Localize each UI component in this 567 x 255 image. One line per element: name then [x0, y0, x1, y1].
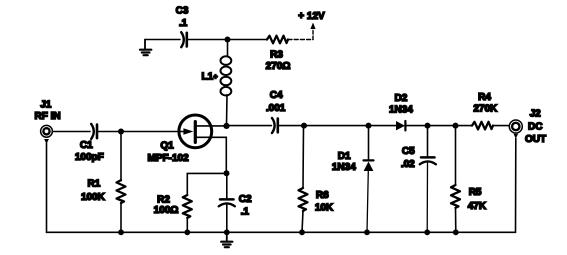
wire (J1 sleeve down to ground rail) — [46, 143, 48, 232]
svg-text:.02: .02 — [401, 159, 415, 170]
svg-text:J1: J1 — [40, 99, 52, 110]
jack J2 — [509, 108, 546, 145]
transistor Q1 (JFET MPF-102) — [148, 115, 227, 173]
node J (R2 bottom) — [184, 229, 190, 235]
capacitor C2 — [219, 173, 252, 232]
capacitor C4 — [266, 90, 286, 133]
wire (R6 node to D1 node) — [304, 125, 369, 127]
svg-text:R2: R2 — [157, 194, 170, 205]
+12V supply arrow — [298, 11, 325, 40]
svg-text:RF IN: RF IN — [35, 111, 61, 122]
node E (R6 top junction) — [301, 123, 307, 129]
node L (R6 bottom) — [299, 229, 305, 235]
wire (R3 to +12V corner, dashed scan look) — [288, 39, 313, 41]
svg-text:OUT: OUT — [525, 134, 546, 145]
svg-text:R5: R5 — [469, 187, 482, 198]
node O (R5 bottom) — [453, 229, 459, 235]
svg-text:R1: R1 — [88, 178, 101, 189]
svg-text:100K: 100K — [81, 192, 106, 203]
wire (R5 node to R4) — [456, 125, 473, 127]
svg-text:C2: C2 — [239, 194, 252, 205]
resistor R1 — [81, 132, 126, 233]
svg-text:L1: L1 — [202, 72, 214, 83]
svg-text:+: + — [213, 72, 218, 81]
svg-text:.001: .001 — [266, 103, 286, 114]
resistor R5 — [451, 126, 487, 233]
svg-text:1N34: 1N34 — [332, 162, 356, 173]
ground (below C2 on rail) — [221, 232, 232, 247]
svg-text:R3: R3 — [270, 50, 283, 61]
wire (bottom ground rail) — [47, 231, 516, 233]
node M (D1 bottom) — [364, 229, 370, 235]
node D (source junction) — [224, 170, 230, 176]
wire (D1 node to D2) — [369, 125, 397, 127]
node F (D1 top junction) — [366, 123, 372, 129]
svg-text:100pF: 100pF — [75, 152, 104, 163]
wire (D2 to C5 node) — [406, 125, 428, 127]
wire (R4 to J2) — [493, 125, 509, 127]
wire (C3 to node A) — [188, 39, 227, 41]
svg-text:D2: D2 — [395, 93, 408, 104]
wire (J2 sleeve down to ground rail) — [515, 138, 517, 232]
svg-text:DC: DC — [528, 121, 542, 132]
svg-text:C1: C1 — [80, 140, 93, 151]
wire (C1 to node B) — [98, 131, 121, 133]
svg-text:D1: D1 — [338, 151, 351, 162]
node N (C5 bottom) — [424, 229, 430, 235]
wire (J1 to C1) — [52, 131, 90, 133]
wire (ground to C3) — [145, 39, 180, 41]
capacitor C5 — [401, 126, 436, 233]
jack J1 — [35, 99, 61, 144]
wire (C4 to R6 node) — [279, 125, 304, 127]
wire (C5 node to R5 node) — [428, 125, 456, 127]
svg-text:.1: .1 — [179, 18, 188, 29]
node I (R1 bottom) — [118, 229, 124, 235]
wire (node A to R3) — [228, 39, 268, 41]
node B (gate junction) — [118, 129, 124, 135]
node H (R5 top junction) — [453, 123, 459, 129]
svg-text:47K: 47K — [468, 201, 487, 212]
wire (source junction to R2) — [187, 173, 226, 195]
svg-text:C3: C3 — [176, 6, 189, 17]
resistor R2 — [154, 194, 192, 232]
svg-text:270K: 270K — [473, 103, 498, 114]
inductor L1 — [202, 40, 232, 126]
svg-text:10K: 10K — [315, 202, 334, 213]
svg-text:R4: R4 — [478, 92, 491, 103]
resistor R6 — [299, 126, 334, 233]
ground (top left) — [140, 40, 151, 56]
svg-text:R6: R6 — [316, 190, 329, 201]
svg-text:270Ω: 270Ω — [266, 61, 291, 72]
node A (top junction) — [225, 37, 231, 43]
svg-text:MPF-102: MPF-102 — [148, 153, 190, 164]
svg-text:100Ω: 100Ω — [154, 205, 179, 216]
capacitor C3 — [176, 6, 189, 48]
capacitor C1 — [75, 124, 104, 163]
svg-text:+ 12V: + 12V — [298, 11, 325, 22]
svg-text:J2: J2 — [530, 108, 542, 119]
resistor R4 — [472, 92, 498, 130]
node K (C2 bottom) — [224, 229, 230, 235]
svg-text:.1: .1 — [241, 206, 250, 217]
svg-text:C5: C5 — [402, 146, 415, 157]
resistor R3 — [266, 36, 291, 72]
node C (drain junction) — [223, 123, 229, 129]
wire (drain junction to C4) — [227, 125, 272, 127]
diode D2 — [389, 93, 413, 131]
wire (node B to Q1 gate) — [121, 131, 186, 133]
diode D1 — [332, 126, 374, 233]
svg-text:1N34: 1N34 — [389, 105, 413, 116]
svg-text:C4: C4 — [270, 90, 283, 101]
svg-text:Q1: Q1 — [160, 140, 174, 151]
node G (C5 top junction) — [425, 123, 431, 129]
